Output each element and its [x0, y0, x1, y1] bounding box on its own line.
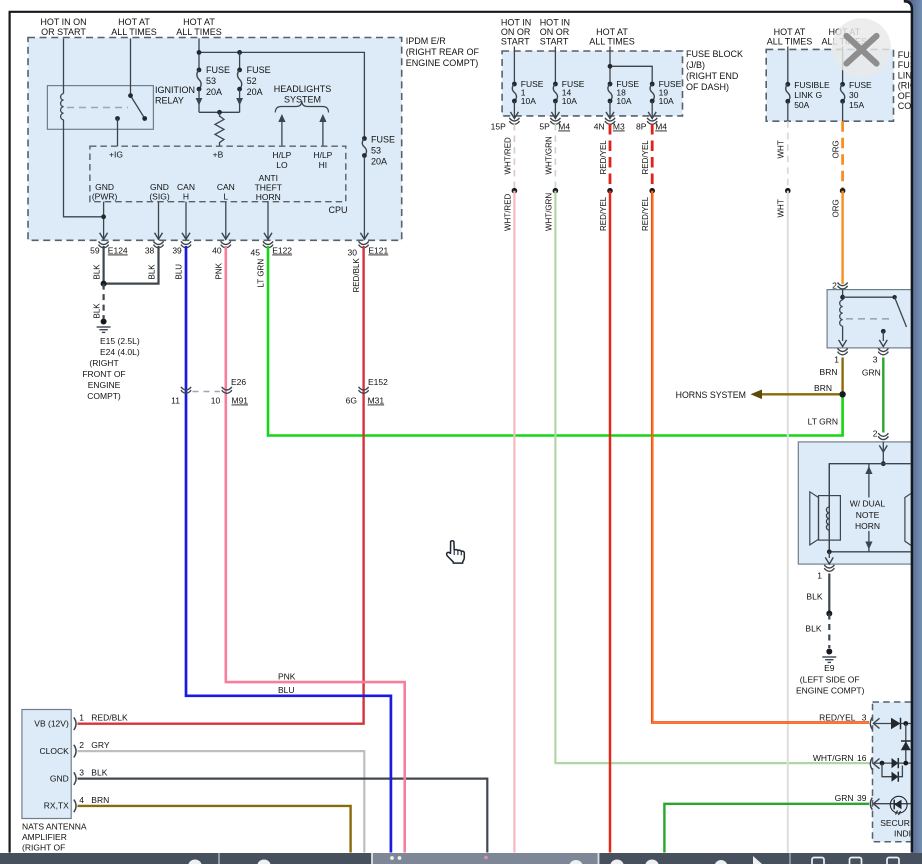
horn relay mechanical link (dashed) — [846, 318, 894, 320]
svg-text:M91: M91 — [232, 396, 249, 406]
svg-text:52: 52 — [247, 76, 257, 86]
CPU stub CAN L — [225, 202, 227, 240]
svg-text:WHT/RED: WHT/RED — [503, 193, 512, 231]
pin label GND (PWR) — [92, 182, 118, 202]
svg-text:FUSE: FUSE — [206, 65, 230, 75]
svg-text:ON OR: ON OR — [501, 27, 531, 37]
svg-text:OF DASH): OF DASH) — [686, 82, 729, 92]
frame left line — [9, 12, 11, 853]
wire BLK dashed to ground E9 — [828, 614, 830, 649]
svg-text:E9: E9 — [824, 663, 835, 673]
app background strip (right side) — [905, 0, 922, 853]
svg-text:1: 1 — [79, 713, 84, 723]
svg-text:ON OR: ON OR — [540, 27, 570, 37]
svg-text:59: 59 — [90, 246, 100, 256]
wire RED/BLK from pin 30 down to NATS amplifier — [78, 246, 364, 724]
FUSE AND FUSIBLE LINK BOX dashed box — [766, 49, 893, 121]
svg-text:15A: 15A — [849, 100, 864, 110]
wire: relay output to +IG — [117, 119, 119, 147]
CPU stub GND (SIG) — [158, 202, 160, 240]
svg-text:RED/YEL: RED/YEL — [599, 140, 608, 175]
svg-text:RX,TX: RX,TX — [44, 801, 69, 811]
horn relay coil — [840, 300, 843, 326]
svg-text:8P: 8P — [636, 122, 647, 132]
relay mechanical link (dashed) — [67, 107, 128, 109]
svg-text:M31: M31 — [368, 396, 385, 406]
frame top line — [9, 11, 912, 13]
NATS pin labels — [34, 719, 69, 811]
connector 15P — [510, 118, 520, 125]
svg-text:OR START: OR START — [41, 27, 86, 37]
svg-text:LT GRN: LT GRN — [257, 259, 266, 288]
svg-text:RED/YEL: RED/YEL — [599, 196, 608, 231]
svg-text:20A: 20A — [206, 87, 222, 97]
FUSE AND FUSIBLE LINK BOX label (clipped by page edge) — [898, 50, 922, 111]
wire BLK from horn pin 1 — [828, 574, 830, 614]
svg-text:4N: 4N — [594, 122, 605, 132]
fuse 1 10A — [513, 47, 515, 85]
fusible link G 50A — [787, 47, 789, 85]
svg-text:2: 2 — [832, 281, 837, 291]
svg-text:WHT/GRN: WHT/GRN — [813, 753, 854, 763]
feed label HOT AT ALL TIMES (fusible link G) — [767, 27, 813, 47]
horn relay box — [827, 290, 913, 348]
connector security pin 16 — [870, 758, 872, 770]
wire: HOT AT ALL TIMES feed to relay switch — [130, 39, 132, 96]
svg-text:FUSIBLE: FUSIBLE — [794, 80, 830, 90]
FUSE BLOCK label — [686, 49, 743, 92]
fuse 18 10A with branch to fuse 19 — [609, 47, 611, 85]
CPU stub CAN H — [185, 202, 187, 240]
svg-text:10A: 10A — [521, 96, 536, 106]
svg-text:(RIGHT REAR OF: (RIGHT REAR OF — [406, 47, 480, 57]
connector pin 39 — [181, 241, 191, 248]
svg-text:H/LP: H/LP — [272, 150, 291, 160]
feed label HOT AT ALL TIMES (fuse 30) — [822, 27, 868, 47]
svg-text:RELAY: RELAY — [155, 96, 184, 106]
svg-text:LINK G: LINK G — [794, 90, 822, 100]
svg-text:FUSE: FUSE — [371, 135, 395, 145]
CPU stub ANTI THEFT HORN — [267, 202, 269, 240]
horn box (W/ DUAL NOTE HORN) — [798, 442, 913, 564]
svg-text:1: 1 — [834, 355, 839, 365]
arrow H/LP HI up — [322, 117, 324, 146]
svg-text:1: 1 — [817, 571, 822, 581]
svg-text:10A: 10A — [616, 96, 631, 106]
svg-text:(J/B): (J/B) — [686, 60, 705, 70]
connector NATS pin 3 — [74, 772, 76, 785]
svg-text:HOT AT: HOT AT — [596, 27, 628, 37]
connector 4N M3 — [605, 118, 615, 125]
wire GRN from relay pin 3 to horn — [882, 358, 884, 433]
NATS ANTENNA AMPLIFIER label — [22, 822, 87, 853]
svg-text:HORN: HORN — [855, 521, 880, 531]
wire RED/YEL solid down page — [609, 191, 612, 864]
svg-text:FUSE: FUSE — [247, 65, 271, 75]
NATS antenna amplifier box — [22, 710, 71, 819]
svg-text:38: 38 — [145, 246, 155, 256]
svg-text:10: 10 — [211, 396, 221, 406]
connector NATS pin 1 — [74, 717, 76, 730]
svg-text:HI: HI — [319, 160, 328, 170]
connector E124 pin 59 — [99, 241, 109, 248]
connector NATS pin 4 — [74, 800, 76, 813]
svg-text:(PWR): (PWR) — [92, 192, 118, 202]
bottom toolbar — [0, 853, 922, 864]
arrow H/LP LO up — [281, 117, 283, 146]
svg-text:(SIG): (SIG) — [149, 192, 169, 202]
svg-text:40: 40 — [212, 246, 222, 256]
svg-text:H: H — [183, 192, 189, 202]
svg-text:WHT: WHT — [777, 199, 786, 217]
wire BRN arrow to HORNS SYSTEM — [760, 393, 843, 395]
svg-text:NOTE: NOTE — [856, 510, 880, 520]
svg-text:GRY: GRY — [91, 740, 110, 750]
svg-text:HEADLIGHTS: HEADLIGHTS — [274, 84, 332, 94]
HEADLIGHTS SYSTEM label — [274, 84, 332, 105]
connector horn relay pin 1 — [838, 348, 848, 355]
CPU stub GND (PWR) — [103, 202, 105, 234]
pin label H/LP HI — [313, 150, 332, 170]
wire WHT solid down page — [787, 191, 789, 864]
mouse cursor — [447, 541, 465, 563]
svg-text:HOT AT: HOT AT — [183, 17, 215, 27]
inline connector M31/E152 pin 6G (RED/BLK) — [359, 387, 369, 394]
wire GRN to security pin 39 from page bottom — [664, 804, 869, 864]
svg-text:E124: E124 — [108, 246, 128, 256]
svg-text:IPDM E/R: IPDM E/R — [406, 36, 447, 46]
svg-text:BLK: BLK — [91, 768, 107, 778]
IPDM E/R label — [406, 36, 480, 68]
wire labels at NATS — [91, 713, 128, 806]
svg-text:CAN: CAN — [217, 182, 235, 192]
svg-text:E26: E26 — [231, 377, 246, 387]
svg-text:BLU: BLU — [175, 264, 184, 280]
horn relay switch feed — [843, 296, 895, 298]
svg-text:AMPLIFIER: AMPLIFIER — [22, 832, 67, 842]
fuse 14 10A — [554, 47, 556, 85]
svg-text:GND: GND — [50, 774, 69, 784]
security indicator LED — [873, 803, 910, 805]
svg-text:GND: GND — [150, 182, 169, 192]
svg-text:CAN: CAN — [177, 182, 195, 192]
wire RED/YEL dashed (above splice, fuse 19) — [651, 124, 654, 188]
horn pin 2 entry — [882, 442, 884, 464]
left horn speaker cone — [810, 492, 819, 545]
svg-text:WHT/RED: WHT/RED — [503, 137, 512, 175]
svg-text:WHT/GRN: WHT/GRN — [544, 193, 553, 231]
connector 8P M4 — [647, 118, 657, 125]
svg-text:ALL TIMES: ALL TIMES — [767, 37, 813, 47]
svg-text:15P: 15P — [491, 122, 506, 132]
svg-text:ORG: ORG — [832, 140, 841, 158]
wire BLK from pin 59 — [102, 246, 104, 284]
ignition relay label — [155, 85, 195, 106]
svg-text:BLK: BLK — [147, 264, 156, 280]
wire ORG dashed (above splice) — [841, 121, 844, 188]
splice nodes — [512, 188, 518, 194]
svg-text:(LEFT SIDE OF: (LEFT SIDE OF — [800, 675, 860, 685]
wire: fuse outputs joined — [199, 111, 240, 113]
svg-text:PNK: PNK — [214, 262, 223, 279]
svg-text:16: 16 — [857, 753, 867, 763]
node BRN / LT GRN junction — [839, 391, 845, 397]
feed label HOT IN ON OR START (fuse 1) — [501, 18, 531, 47]
svg-text:ENGINE COMPT): ENGINE COMPT) — [796, 686, 865, 696]
svg-text:L: L — [223, 192, 228, 202]
svg-text:H/LP: H/LP — [313, 150, 332, 160]
svg-text:E122: E122 — [272, 246, 292, 256]
connector pin 38 — [154, 241, 164, 248]
toolbar active segment — [372, 853, 599, 864]
svg-text:ORG: ORG — [832, 199, 841, 217]
relay switch contact dots — [128, 93, 133, 98]
svg-text:CLOCK: CLOCK — [40, 746, 70, 756]
FUSE BLOCK (J/B) dashed box — [502, 51, 682, 116]
toolbar grip icon dots — [390, 856, 394, 860]
horn pin 1 exit — [828, 552, 830, 558]
connector horn pin 2 — [878, 433, 888, 440]
wire: fuse branch horizontal to FUSE 52 and right FUSE 53 — [199, 52, 364, 138]
svg-text:FUSE BLOCK: FUSE BLOCK — [686, 49, 743, 59]
connector security pin 39 — [870, 798, 872, 810]
svg-text:6G: 6G — [346, 396, 357, 406]
wire RED/YEL dashed (above splice) — [609, 124, 612, 188]
svg-text:10A: 10A — [659, 96, 674, 106]
svg-text:RED/YEL: RED/YEL — [819, 712, 856, 722]
svg-text:ALL TIMES: ALL TIMES — [111, 27, 157, 37]
toolbar separators — [218, 853, 220, 864]
svg-text:(RIGHT: (RIGHT — [89, 358, 118, 368]
svg-text:HOT IN: HOT IN — [540, 18, 570, 28]
svg-text:CPU: CPU — [329, 205, 348, 215]
svg-text:5P: 5P — [539, 122, 550, 132]
svg-text:+IG: +IG — [109, 150, 123, 160]
right horn speaker cone (clipped) — [905, 492, 914, 547]
svg-text:VB (12V): VB (12V) — [34, 719, 69, 729]
svg-text:BLK: BLK — [93, 264, 102, 280]
svg-text:RED/YEL: RED/YEL — [641, 140, 650, 175]
svg-text:HOT IN: HOT IN — [501, 18, 531, 28]
svg-text:30: 30 — [348, 248, 358, 258]
left horn coil — [828, 464, 830, 507]
svg-text:ALL TIMES: ALL TIMES — [176, 27, 222, 37]
svg-text:ANTI: ANTI — [259, 173, 278, 183]
wire BLK from NATS GND — [78, 779, 488, 864]
svg-text:3: 3 — [79, 768, 84, 778]
pin label CAN H — [177, 182, 195, 202]
svg-text:11: 11 — [171, 396, 180, 406]
svg-text:GRN: GRN — [835, 793, 854, 803]
left horn speaker coil body — [819, 496, 841, 540]
toolbar square icons — [812, 858, 899, 864]
svg-text:BLK: BLK — [806, 592, 822, 602]
toolbar icons (tops visible) — [188, 860, 728, 864]
wire GRY from NATS CLOCK — [78, 751, 365, 864]
svg-text:W/ DUAL: W/ DUAL — [850, 499, 886, 509]
svg-text:IGNITION: IGNITION — [155, 85, 195, 95]
svg-text:HORN: HORN — [256, 192, 281, 202]
security pin 16 diodes — [873, 762, 891, 764]
feed label HOT IN ON OR START (fuse 14) — [540, 18, 570, 47]
security pin 3 diode — [873, 723, 891, 725]
svg-text:30: 30 — [849, 90, 859, 100]
close button — [832, 18, 891, 77]
node BLK splice — [826, 611, 832, 617]
svg-text:BRN: BRN — [91, 795, 109, 805]
ground E9 — [826, 649, 832, 655]
relay switch blade — [131, 96, 144, 117]
pin label ANTI THEFT HORN — [255, 173, 282, 202]
svg-text:20A: 20A — [371, 157, 387, 167]
svg-text:GND: GND — [95, 182, 114, 192]
fuse 53 (left, 20A) — [197, 68, 202, 73]
svg-text:START: START — [501, 37, 530, 47]
svg-text:BLK: BLK — [805, 624, 821, 634]
svg-text:+B: +B — [213, 150, 224, 160]
inline connector dashed link — [193, 391, 221, 393]
security indicator dashed box — [873, 702, 914, 842]
feed label HOT AT ALL TIMES (relay switch) — [111, 17, 157, 37]
svg-text:M3: M3 — [613, 122, 625, 132]
wire BLU from pin 39 — [186, 246, 391, 864]
svg-text:10A: 10A — [562, 96, 577, 106]
svg-text:LO: LO — [276, 160, 288, 170]
relay coil — [61, 94, 64, 120]
wire: HOT AT ALL TIMES feed to fuse branch — [198, 39, 200, 70]
svg-text:BLK: BLK — [93, 303, 102, 319]
horn internal bus — [829, 464, 910, 552]
svg-text:E24 (4.0L): E24 (4.0L) — [100, 347, 140, 357]
IPDM E/R outer dashed box — [28, 38, 402, 241]
svg-text:HOT IN ON: HOT IN ON — [40, 17, 86, 27]
svg-text:E15 (2.5L): E15 (2.5L) — [100, 336, 140, 346]
svg-text:ENGINE COMPT): ENGINE COMPT) — [406, 58, 479, 68]
svg-text:53: 53 — [206, 76, 216, 86]
inline connector pin 10 (PNK) — [222, 387, 232, 394]
CPU dashed box — [90, 146, 346, 202]
toolbar colored icon dot — [484, 856, 488, 860]
security inter-row diode (up) — [905, 724, 907, 764]
wire: HOT IN ON OR START feed to relay coil — [63, 39, 65, 94]
label SECURITY INDICATOR (clipped) — [880, 818, 922, 838]
pin label H/LP LO — [272, 150, 291, 170]
resistor to +B — [215, 112, 224, 146]
svg-text:GRN: GRN — [862, 368, 881, 378]
inline connector M91/E26 pin 11 (BLU) — [181, 387, 191, 394]
ignition relay box — [47, 86, 153, 130]
connector horn relay pin 3 — [878, 348, 888, 355]
fuse 30 15A — [842, 47, 844, 85]
connector horn relay pin 2 — [838, 282, 848, 289]
svg-text:20A: 20A — [247, 87, 263, 97]
node BLK junction — [101, 281, 107, 287]
connector E122 pin 45 — [263, 241, 273, 248]
svg-text:50A: 50A — [794, 100, 809, 110]
svg-text:BRN: BRN — [814, 383, 832, 393]
wire WHT/GRN solid to security indicator pin 16 — [555, 191, 869, 763]
pin label GND (SIG) — [149, 182, 169, 202]
svg-text:E152: E152 — [368, 377, 388, 387]
svg-text:WHT/GRN: WHT/GRN — [544, 136, 553, 174]
svg-text:45: 45 — [251, 248, 261, 258]
svg-text:NATS ANTENNA: NATS ANTENNA — [22, 822, 87, 832]
svg-text:M4: M4 — [558, 122, 570, 132]
wire WHT/RED solid down page — [513, 191, 515, 864]
svg-text:RED/YEL: RED/YEL — [641, 196, 650, 231]
W/ DUAL NOTE HORN double arrow — [868, 464, 870, 498]
svg-text:RED/BLK: RED/BLK — [91, 713, 128, 723]
connector security pin 3 — [870, 717, 872, 729]
svg-text:(RIGHT OF: (RIGHT OF — [22, 843, 65, 853]
wire PNK from pin 40 — [226, 246, 405, 864]
svg-text:HOT AT: HOT AT — [774, 27, 806, 37]
svg-text:ENGINE: ENGINE — [88, 380, 121, 390]
svg-text:WHT: WHT — [777, 140, 786, 158]
horn relay internals: feed node — [842, 290, 844, 300]
svg-text:4: 4 — [79, 795, 84, 805]
wire ORG solid to horn relay pin 2 — [841, 191, 843, 284]
svg-text:(RIGHT END: (RIGHT END — [686, 71, 739, 81]
label W/ DUAL NOTE HORN — [850, 499, 886, 532]
connector E121 pin 30 — [359, 241, 369, 248]
svg-text:2: 2 — [79, 740, 84, 750]
wire WHT/RED dashed (above splice) — [513, 124, 515, 188]
connector 5P M4 — [551, 118, 561, 125]
feed label HOT AT ALL TIMES (fuses 18/19) — [589, 27, 635, 47]
wire WHT/GRN dashed (above splice) — [554, 124, 556, 188]
svg-text:THEFT: THEFT — [255, 183, 282, 193]
node: branch junctions — [197, 50, 202, 55]
document frame black border — [904, 1, 912, 852]
feed label HOT IN ON OR START — [40, 17, 86, 37]
svg-text:BRN: BRN — [820, 367, 838, 377]
wire BLK from pin 38 joining — [104, 246, 159, 284]
horn relay switch contact to pin 3 — [881, 329, 886, 334]
svg-text:53: 53 — [371, 146, 381, 156]
wire LT GRN from pin 45 across to horn relay — [268, 246, 843, 436]
svg-text:M4: M4 — [655, 122, 667, 132]
svg-text:E121: E121 — [368, 246, 388, 256]
wire: coil return down and right to GND(PWR) junction — [64, 120, 104, 217]
feed label HOT AT ALL TIMES (fuses) — [176, 17, 222, 37]
svg-text:RED/BLK: RED/BLK — [352, 258, 361, 293]
connector pin 40 — [221, 241, 231, 248]
wire BRN from relay pin 1 — [841, 358, 843, 395]
brace for headlights system — [275, 101, 328, 113]
wire RED/YEL solid to security indicator pin 3 — [652, 191, 869, 723]
svg-text:2: 2 — [873, 429, 878, 439]
svg-text:PNK: PNK — [278, 671, 296, 681]
pin label CAN L — [217, 182, 235, 202]
wire BLK dashed to ground — [102, 284, 104, 319]
wire WHT dashed (above splice) — [787, 121, 789, 188]
toolbar cursor icon — [753, 856, 762, 864]
svg-text:39: 39 — [172, 246, 182, 256]
svg-text:FRONT OF: FRONT OF — [82, 369, 125, 379]
ground E15/E24 — [101, 319, 107, 325]
svg-text:COMPT): COMPT) — [87, 391, 121, 401]
svg-text:HOT AT: HOT AT — [118, 17, 150, 27]
wire BRN from NATS RX,TX — [78, 806, 351, 864]
svg-text:LT GRN: LT GRN — [808, 417, 838, 427]
svg-text:39: 39 — [857, 793, 867, 803]
svg-text:ALL TIMES: ALL TIMES — [589, 37, 635, 47]
fuse 52 (20A) — [239, 52, 241, 70]
horn relay switch blade — [895, 297, 907, 327]
svg-text:FUSE: FUSE — [849, 80, 872, 90]
svg-text:START: START — [540, 37, 569, 47]
